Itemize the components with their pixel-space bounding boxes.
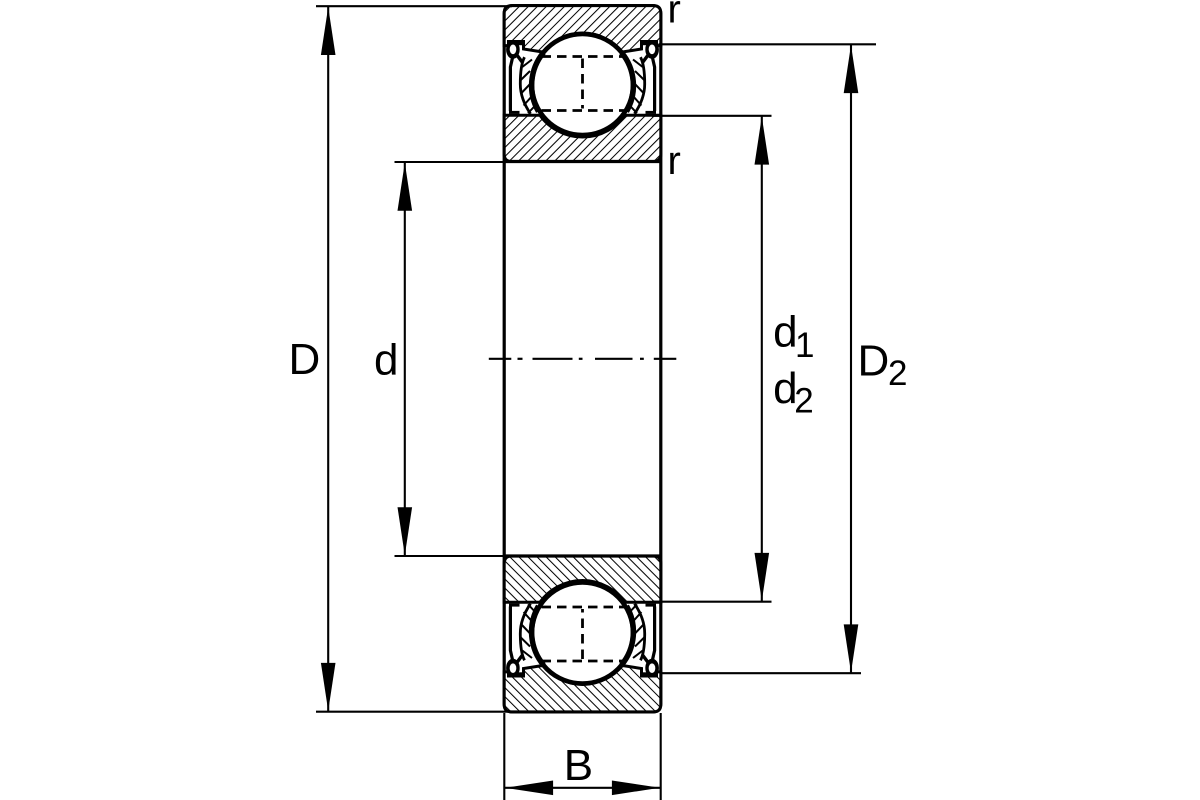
dimension D2 line [850,44,852,673]
bore line bottom bearing [504,554,661,557]
ball pitch dashed lines [542,57,625,111]
dimension D line [327,6,329,712]
svg-text:D: D [858,337,890,386]
svg-text:r: r [668,139,681,183]
shield left [510,57,512,112]
dimension d1 d2 extension line bottom [652,601,772,603]
bearing silhouette outer rectangle [504,6,661,712]
shield right hook [642,40,659,63]
shield left hook [506,40,523,63]
shield right [652,57,654,112]
top bearing half [504,6,661,162]
svg-text:d: d [773,308,797,357]
dimension D2 extension line bottom [661,672,861,674]
dimension B arrow right [612,781,660,796]
svg-text:d: d [374,336,398,385]
dimension d1 d2 arrow up [755,117,770,165]
dimension B arrow left [505,781,553,796]
ball [532,34,633,135]
dimension d arrow down [398,507,413,555]
shield left foot [509,111,520,114]
dimension d1 d2 arrow down [755,553,770,601]
shield right foot [646,111,657,114]
svg-text:D: D [289,335,321,384]
inner ring section (hatched) [504,115,661,161]
dimension D2 arrow down [844,624,859,672]
bottom bearing half (mirrored copy) [504,556,661,712]
dimension d1 d2 line [761,116,763,602]
dimension d1 d2 extension line top [652,115,772,117]
dimension d line [404,162,406,556]
cage hatch ticks right [630,60,644,114]
svg-text:r: r [668,0,681,32]
cage crescent left [520,54,543,114]
dimension D extension line bottom [316,711,512,713]
dimension d extension line top [395,161,506,163]
svg-text:B: B [564,741,593,790]
centerline (dash-dot axis) [489,358,677,360]
cage hatch ticks left [521,60,535,114]
dimension d extension line bottom [395,555,506,557]
svg-text:2: 2 [888,354,907,393]
dimension D arrow down [321,663,336,711]
svg-text:2: 2 [794,382,813,421]
dimension d arrow up [398,163,413,211]
cage crescent right [622,54,645,114]
outer ring section (hatched) [504,6,661,52]
dimension D extension line top [316,5,512,7]
dimension B extension line right [660,713,662,800]
dimension D2 arrow up [844,45,859,93]
dimension B extension line left [503,713,505,800]
svg-text:1: 1 [795,326,814,365]
dimension D arrow up [321,7,336,55]
dimension B line [504,787,660,789]
bore line top bearing [504,160,661,163]
dimension D2 extension line top [659,43,877,45]
